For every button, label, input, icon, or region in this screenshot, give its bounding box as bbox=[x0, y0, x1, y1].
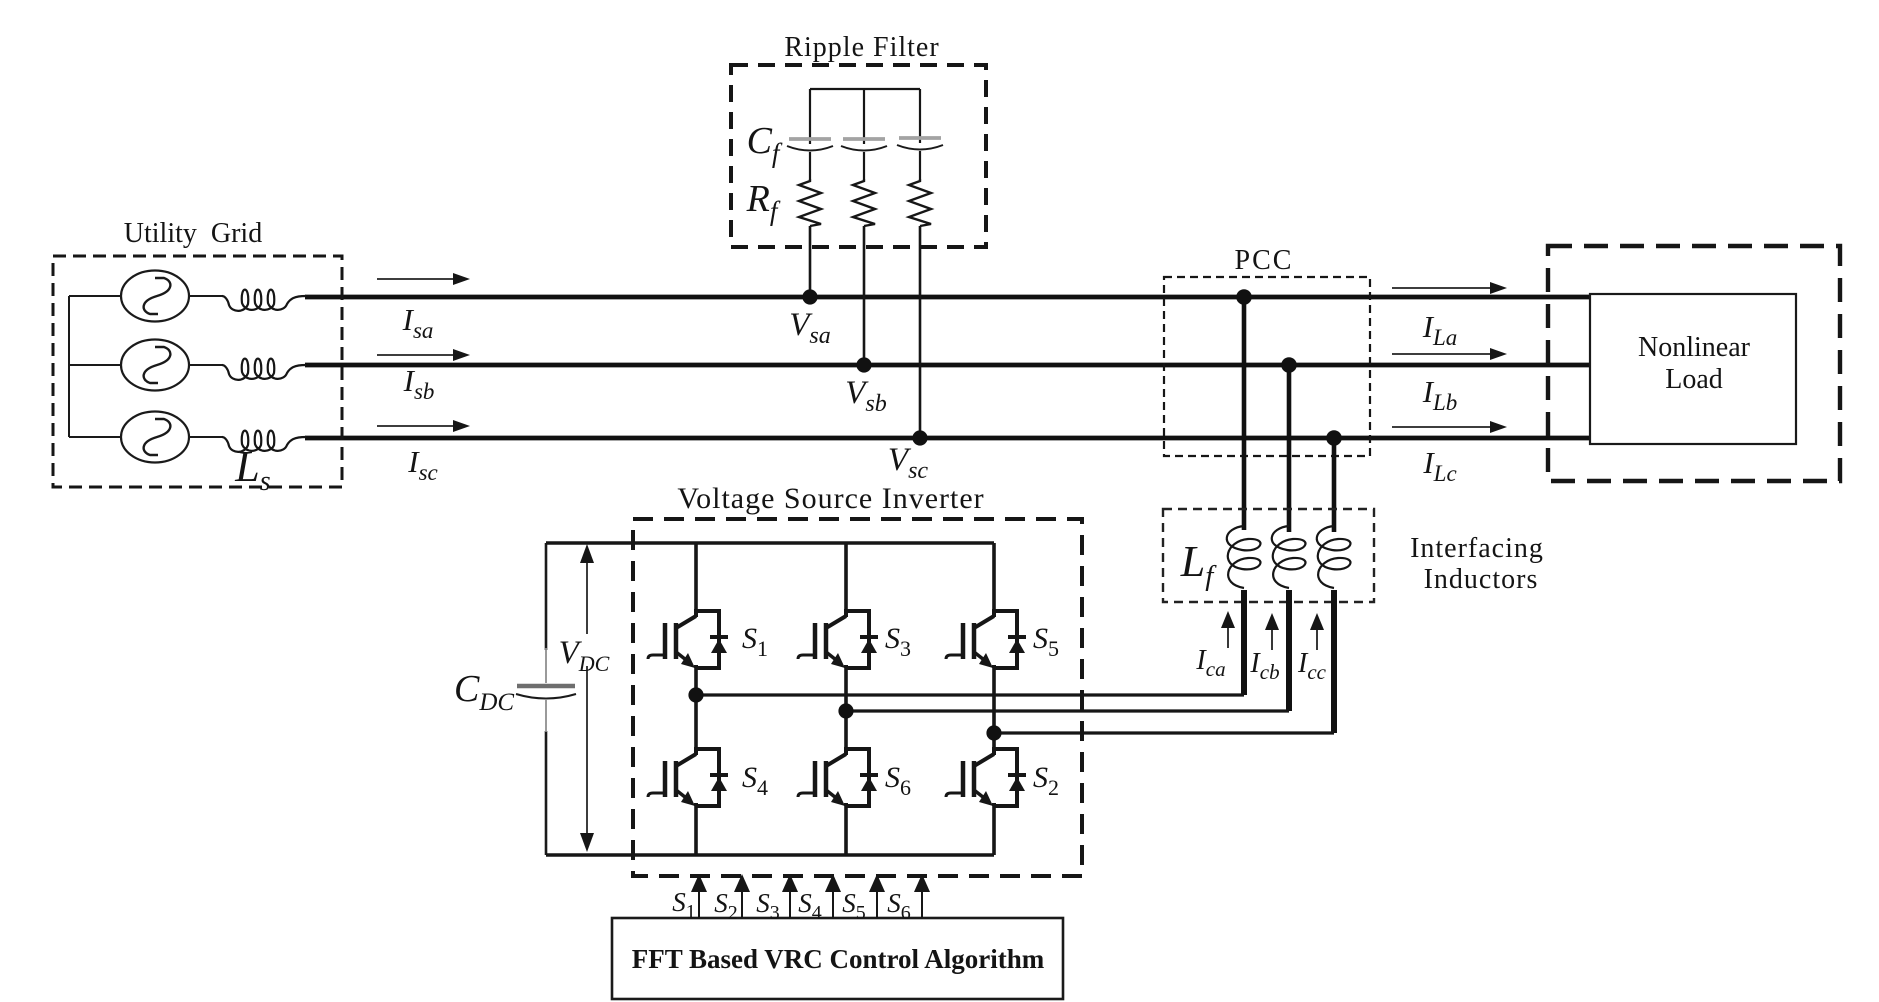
svg-text:S3: S3 bbox=[885, 622, 911, 661]
svg-text:ILc: ILc bbox=[1422, 445, 1456, 486]
svg-text:FFT Based VRC Control Algorith: FFT Based VRC Control Algorithm bbox=[632, 944, 1045, 974]
svg-text:Vsa: Vsa bbox=[789, 307, 831, 349]
svg-text:Isa: Isa bbox=[402, 302, 434, 343]
svg-text:Inductors: Inductors bbox=[1424, 564, 1539, 595]
svg-text:Cf: Cf bbox=[747, 120, 783, 168]
svg-text:Vsc: Vsc bbox=[888, 442, 929, 484]
svg-text:ILb: ILb bbox=[1422, 374, 1458, 415]
svg-text:Lf: Lf bbox=[1180, 537, 1217, 592]
svg-text:S1: S1 bbox=[742, 622, 768, 661]
svg-text:Ripple Filter: Ripple Filter bbox=[784, 32, 939, 63]
svg-text:Ica: Ica bbox=[1195, 645, 1225, 681]
svg-text:Interfacing: Interfacing bbox=[1410, 533, 1544, 564]
svg-text:S2: S2 bbox=[1033, 761, 1059, 800]
svg-text:S5: S5 bbox=[1033, 622, 1059, 661]
svg-text:Utility Grid: Utility Grid bbox=[124, 218, 262, 249]
svg-text:Icc: Icc bbox=[1297, 648, 1327, 684]
svg-text:CDC: CDC bbox=[454, 668, 514, 716]
svg-text:S4: S4 bbox=[742, 761, 768, 800]
svg-text:PCC: PCC bbox=[1235, 245, 1294, 276]
svg-text:Isc: Isc bbox=[407, 444, 438, 485]
svg-text:Nonlinear: Nonlinear bbox=[1638, 332, 1751, 363]
svg-text:ILa: ILa bbox=[1422, 309, 1458, 350]
svg-text:Isb: Isb bbox=[403, 363, 435, 404]
svg-text:Load: Load bbox=[1665, 364, 1723, 395]
svg-text:Voltage Source Inverter: Voltage Source Inverter bbox=[677, 482, 984, 515]
svg-text:Icb: Icb bbox=[1249, 648, 1279, 684]
svg-text:S6: S6 bbox=[885, 761, 911, 800]
svg-text:Vsb: Vsb bbox=[845, 375, 887, 417]
svg-text:Rf: Rf bbox=[746, 178, 781, 226]
